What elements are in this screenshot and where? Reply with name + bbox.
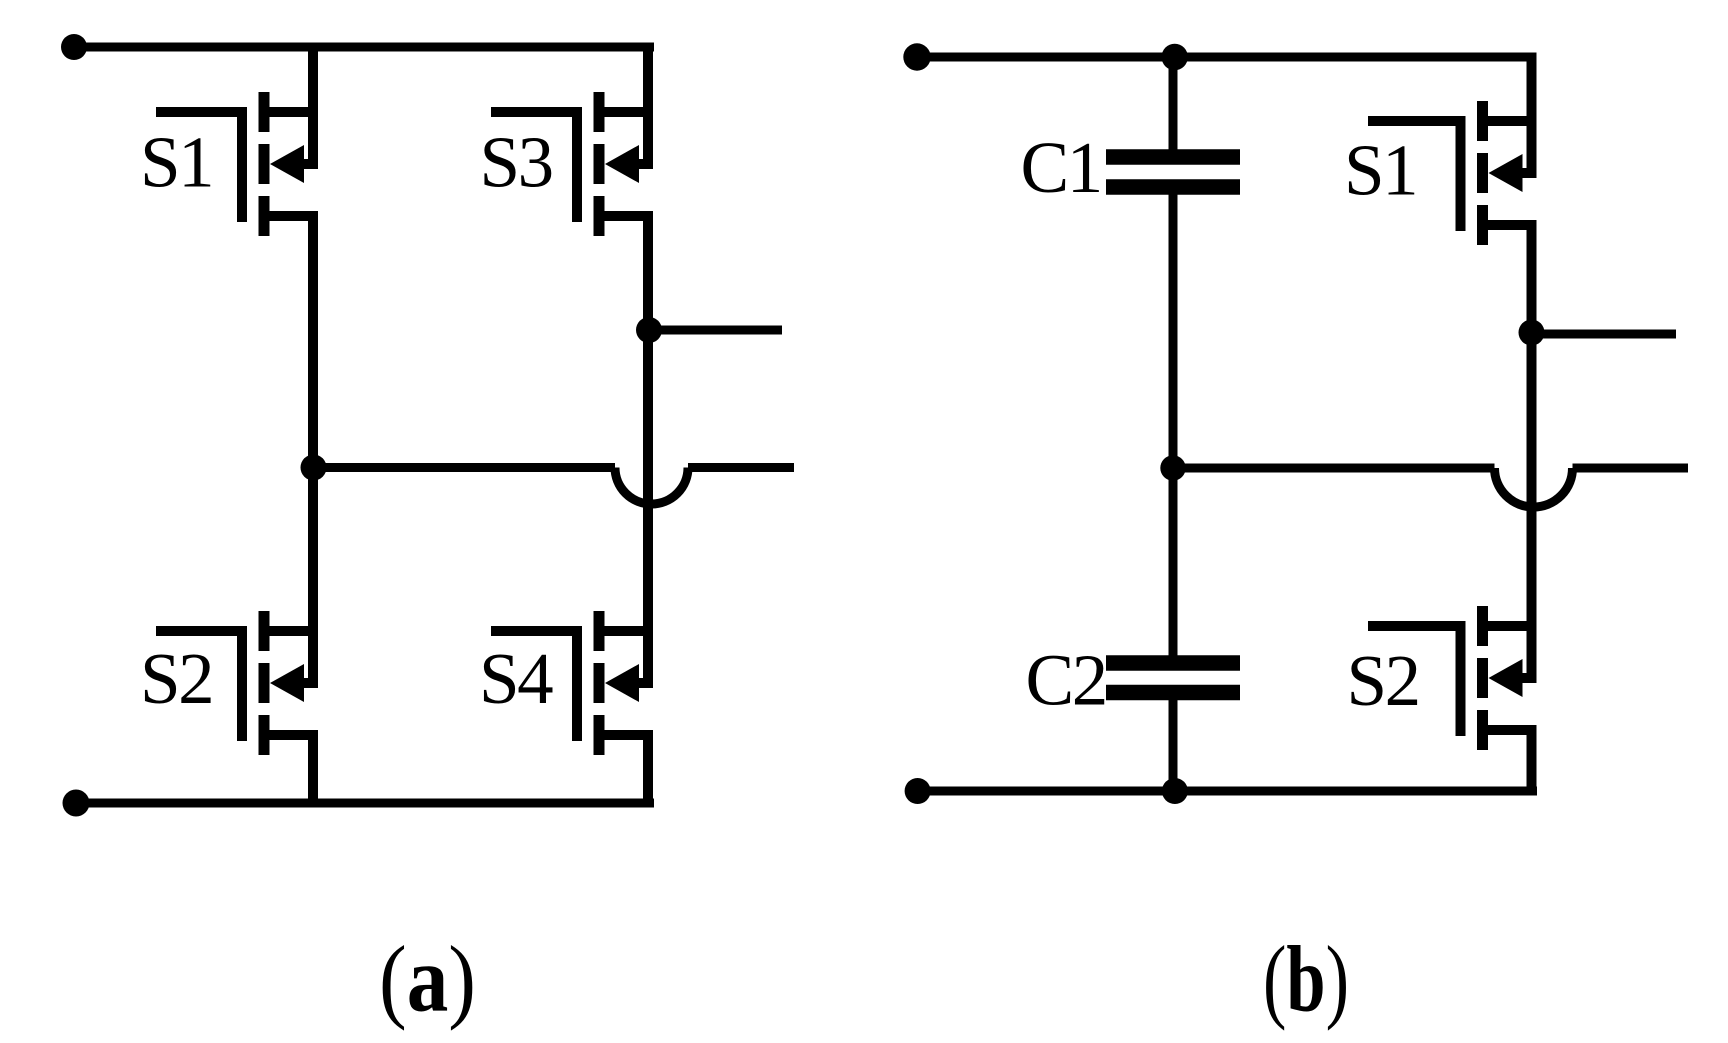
transistor S1 (b): gate bar <box>1456 116 1466 231</box>
junction dot DC- terminal (a) <box>63 790 90 817</box>
transistor S1: drain bar <box>269 107 318 117</box>
junction dot capacitor midpoint node (b) <box>1160 455 1185 480</box>
wire top rail (b) <box>917 53 1537 62</box>
capacitor C1: plates <box>1106 157 1240 187</box>
transistor S1: gate bar <box>237 107 247 222</box>
wire midpoint output wire right (b) <box>1573 464 1689 473</box>
transistor S1: drain lead <box>308 47 318 164</box>
transistor S1 (b): drain lead <box>1527 57 1537 173</box>
transistor S2: gate bar <box>237 626 247 741</box>
transistor S3: source bar <box>604 211 653 221</box>
transistor S1 (b): channel dashes <box>1477 101 1488 245</box>
transistor S2 (b): gate lead <box>1368 621 1466 631</box>
wire C1 top lead (b) <box>1169 57 1178 150</box>
wire C1 bottom lead (b) <box>1169 193 1178 468</box>
svg-text:(a): (a) <box>379 928 476 1032</box>
transistor S1 (b): body arrow <box>1489 154 1523 192</box>
capacitor C2: plates <box>1106 663 1240 693</box>
wire hop output crossing (b) <box>1495 468 1573 507</box>
svg-text:S2: S2 <box>140 638 212 719</box>
svg-text:S2: S2 <box>1347 640 1419 721</box>
transistor S4: drain lead <box>643 330 653 683</box>
transistor S3: gate bar <box>572 107 582 222</box>
transistor S2 (b): gate bar <box>1456 621 1466 736</box>
junction dot DC- terminal (b) <box>905 778 931 804</box>
transistor S2 (b): drain bar <box>1488 621 1537 631</box>
transistor S3: drain bar <box>604 107 653 117</box>
wire output wire top (a) <box>649 326 782 335</box>
transistor S1: source lead <box>308 216 318 468</box>
transistor S2: body tail <box>302 678 318 688</box>
transistor S2 (b): source bar <box>1488 725 1537 735</box>
transistor S1: gate lead <box>156 107 247 117</box>
transistor S2 (b): body arrow <box>1489 659 1523 697</box>
transistor S1: channel dashes <box>259 92 270 236</box>
junction dot capacitor bottom node (b) <box>1162 778 1188 804</box>
transistor S4: source bar <box>604 730 653 740</box>
transistor S2: gate lead <box>156 626 247 636</box>
transistor S3: source lead <box>643 216 653 330</box>
svg-text:C2: C2 <box>1026 640 1106 721</box>
transistor S1 (b): source bar <box>1488 220 1537 230</box>
transistor S4: body tail <box>637 678 653 688</box>
transistor S2: source lead <box>308 735 318 803</box>
transistor S3: drain lead <box>643 47 653 164</box>
wire bottom rail (b) <box>917 787 1537 796</box>
wire output wire top (b) <box>1532 330 1677 339</box>
transistor S4: gate lead <box>491 626 582 636</box>
transistor S3: gate lead <box>491 107 582 117</box>
transistor S4: source lead <box>643 735 653 803</box>
wire phase-leg output wire left (a) <box>314 463 616 472</box>
wire top rail (a) <box>74 43 654 52</box>
svg-text:S1: S1 <box>1344 130 1416 211</box>
transistor S1: body tail <box>302 159 318 169</box>
wire midpoint output wire left (b) <box>1173 464 1495 473</box>
transistor S4: gate bar <box>572 626 582 741</box>
transistor S1 (b): drain bar <box>1488 116 1537 126</box>
transistor S2 (b): channel dashes <box>1477 606 1488 750</box>
wire hop output crossing (a) <box>615 468 688 505</box>
transistor S1: source bar <box>269 211 318 221</box>
transistor S1 (b): gate lead <box>1368 116 1466 126</box>
wire bottom rail (a) <box>76 799 654 808</box>
junction dot DC+ terminal (b) <box>903 43 930 70</box>
transistor S1 (b): source lead <box>1527 225 1537 332</box>
transistor S4: drain bar <box>604 626 653 636</box>
transistor S1 (b): body tail <box>1521 168 1537 178</box>
transistor S3: channel dashes <box>594 92 605 236</box>
transistor S2: drain lead <box>308 468 318 684</box>
transistor S2 (b): source lead <box>1527 730 1537 791</box>
svg-text:S4: S4 <box>479 638 553 719</box>
svg-text:C1: C1 <box>1021 127 1101 208</box>
wire C2 bottom lead (b) <box>1169 699 1178 791</box>
transistor S1: body arrow <box>270 145 304 183</box>
wire C2 top lead (b) <box>1169 468 1178 656</box>
transistor S2 (b): body tail <box>1521 673 1537 683</box>
wire phase-leg output wire right (a) <box>688 463 794 472</box>
transistor S2: channel dashes <box>259 611 270 755</box>
transistor S4: body arrow <box>605 664 639 702</box>
svg-text:S3: S3 <box>480 122 552 203</box>
junction dot DC+ terminal (a) <box>61 34 87 60</box>
junction dot midpoint node (a) <box>301 455 327 481</box>
transistor S2: body arrow <box>270 664 304 702</box>
junction dot output node (a) <box>636 317 662 343</box>
transistor S2: drain bar <box>269 626 318 636</box>
transistor S3: body arrow <box>605 145 639 183</box>
transistor S2 (b): drain lead <box>1527 332 1537 678</box>
transistor S2: source bar <box>269 730 318 740</box>
junction dot output node (b) <box>1519 320 1545 346</box>
svg-text:S1: S1 <box>140 122 212 203</box>
transistor S3: body tail <box>637 159 653 169</box>
transistor S4: channel dashes <box>594 611 605 755</box>
svg-text:(b): (b) <box>1263 928 1349 1032</box>
junction dot capacitor top node (b) <box>1162 44 1188 70</box>
